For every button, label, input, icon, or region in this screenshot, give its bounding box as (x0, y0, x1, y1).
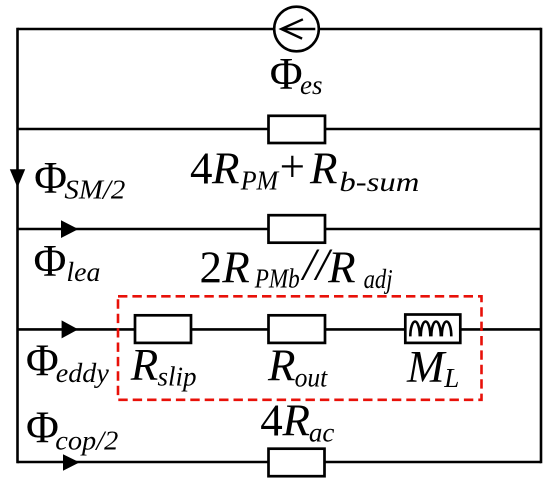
svg-text:2: 2 (200, 243, 223, 293)
svg-text:4: 4 (190, 144, 213, 194)
svg-text:R: R (327, 243, 356, 293)
svg-text:eddy: eddy (56, 358, 109, 388)
arrow down on left wire (Phi_SM/2) (10, 169, 25, 187)
svg-text:+: + (280, 142, 305, 192)
resistor 4Rac (bottom) (269, 449, 325, 477)
svg-text:Φ: Φ (34, 236, 67, 286)
svg-text:b-sum: b-sum (339, 167, 419, 197)
red dashed box around eddy-current branch (118, 296, 482, 400)
svg-text:PMb: PMb (254, 264, 300, 294)
svg-text:lea: lea (66, 257, 100, 287)
svg-text:M: M (406, 342, 447, 392)
svg-text:adj: adj (364, 264, 393, 294)
arrow right on row 3 (Phi_lea) (61, 220, 78, 238)
svg-text:L: L (443, 363, 459, 393)
wire: right vertical (540, 28, 543, 464)
svg-text:slip: slip (158, 362, 197, 392)
wire: top horizontal (18, 28, 542, 31)
inductor ML box (row 4) (405, 315, 460, 343)
svg-text:R: R (221, 243, 250, 293)
flux source arrow (shaft + chevron) (281, 19, 315, 38)
svg-text:out: out (295, 362, 329, 392)
wire: row 3 horizontal (18, 228, 542, 231)
wire: left vertical (16, 28, 19, 464)
svg-text:Φ: Φ (26, 336, 59, 386)
svg-text:R: R (309, 144, 338, 194)
resistor Rslip (row 4) (135, 315, 191, 343)
wire: row 2 horizontal (18, 128, 542, 131)
svg-text:ac: ac (309, 417, 335, 447)
resistor Rout (row 4) (269, 315, 326, 343)
svg-text:R: R (130, 340, 159, 390)
resistor 2RPMb//Radj (row 3) (269, 215, 326, 243)
svg-text:R: R (267, 341, 296, 391)
svg-text:4: 4 (260, 396, 283, 446)
svg-text:Φ: Φ (26, 403, 59, 453)
arrow right on bottom wire (Phi_cop/2) (63, 454, 80, 470)
svg-text:SM/2: SM/2 (64, 175, 125, 205)
inductor ML coils (410, 322, 451, 337)
wire: row 4 horizontal (18, 328, 542, 331)
arrow right on row 4 (Phi_eddy) (62, 320, 79, 338)
svg-text:cop/2: cop/2 (55, 426, 118, 456)
resistor 4RPM+Rb-sum (row 2) (269, 116, 326, 143)
svg-text:R: R (282, 396, 311, 446)
svg-text:Φ: Φ (34, 153, 67, 203)
svg-text:Φ: Φ (270, 49, 303, 99)
wire: bottom horizontal (18, 461, 542, 464)
svg-text:es: es (300, 70, 323, 100)
svg-text:R: R (211, 144, 240, 194)
flux source circle (top) (274, 7, 319, 52)
svg-text:PM: PM (240, 166, 280, 196)
